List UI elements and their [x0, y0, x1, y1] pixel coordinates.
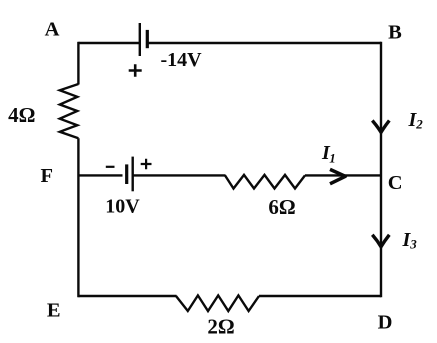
svg-text:D: D [378, 311, 393, 333]
current arrow I2 [372, 121, 389, 133]
svg-text:B: B [388, 22, 402, 44]
svg-text:A: A [45, 19, 60, 41]
svg-text:3: 3 [409, 236, 417, 251]
svg-text:2: 2 [415, 117, 423, 132]
wire bottom E to resistor 2ohm [78, 295, 176, 297]
svg-text:10V: 10V [105, 196, 140, 218]
svg-text:-14V: -14V [160, 49, 202, 71]
wire left resistor to F to E [77, 138, 79, 297]
battery V2 short plate [125, 164, 128, 184]
battery V1 plus sign [129, 64, 142, 76]
wire top A to battery [78, 42, 139, 44]
svg-text:2Ω: 2Ω [207, 315, 234, 339]
battery V2 minus sign [106, 166, 115, 168]
battery V1 long plate [139, 23, 141, 56]
svg-text:1: 1 [329, 151, 336, 166]
svg-text:6Ω: 6Ω [268, 195, 295, 219]
resistor R1 4ohm zigzag [60, 84, 79, 138]
wire top battery to B [147, 42, 381, 44]
wire right B to C to D [380, 42, 382, 297]
current arrow I1 [330, 169, 345, 183]
svg-text:E: E [47, 300, 61, 322]
battery V1 short plate [146, 30, 149, 48]
wire resistor 2ohm to D [259, 295, 381, 297]
wire battery V2 to resistor 6ohm [133, 174, 226, 176]
resistor R2 6ohm zigzag [225, 175, 305, 189]
svg-text:F: F [41, 165, 54, 187]
svg-text:C: C [388, 172, 403, 194]
battery V2 plus sign [141, 159, 152, 170]
resistor R3 2ohm zigzag [176, 295, 259, 311]
wire resistor 6ohm to node C [305, 174, 381, 176]
wire F to battery V2 [78, 174, 122, 176]
battery V2 long plate [131, 157, 133, 192]
current arrow I3 [372, 235, 389, 247]
svg-text:4Ω: 4Ω [8, 103, 35, 127]
wire left A down to resistor [77, 42, 79, 85]
